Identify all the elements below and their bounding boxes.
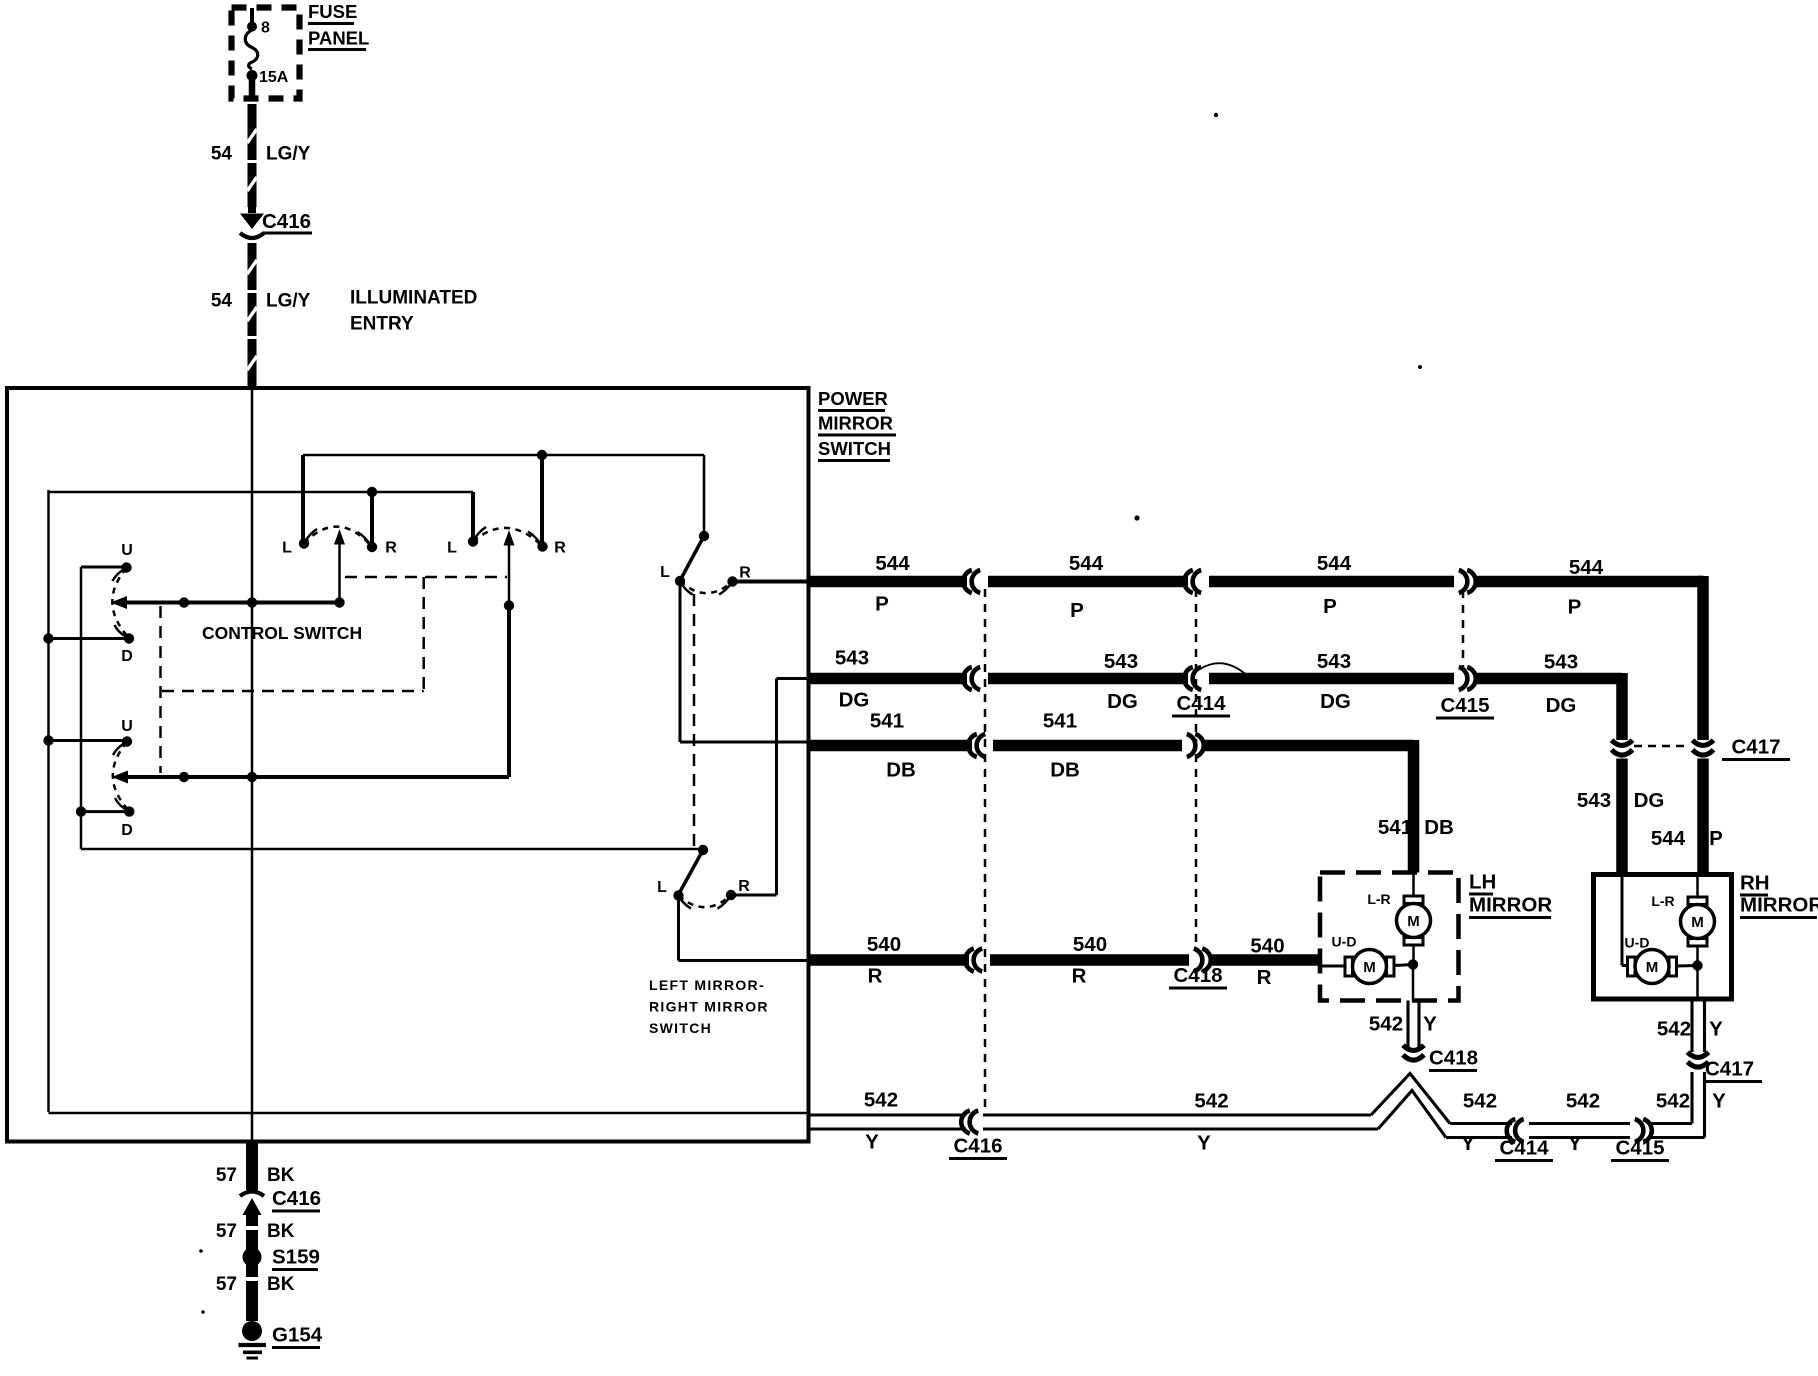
svg-text:U-D: U-D bbox=[1625, 935, 1650, 951]
svg-text:Y: Y bbox=[1461, 1132, 1475, 1155]
svg-text:DB: DB bbox=[1050, 759, 1080, 782]
svg-text:C417: C417 bbox=[1705, 1058, 1754, 1081]
svg-text:542: 542 bbox=[1369, 1013, 1403, 1036]
svg-text:DG: DG bbox=[1546, 694, 1577, 717]
svg-text:DG: DG bbox=[1320, 690, 1351, 713]
svg-text:CONTROL SWITCH: CONTROL SWITCH bbox=[202, 623, 362, 643]
svg-text:ILLUMINATED: ILLUMINATED bbox=[350, 288, 477, 309]
svg-text:U: U bbox=[121, 542, 133, 559]
svg-text:Y: Y bbox=[1712, 1090, 1726, 1113]
svg-text:M: M bbox=[1407, 913, 1420, 930]
svg-text:Y: Y bbox=[1568, 1132, 1582, 1155]
svg-text:U: U bbox=[121, 718, 133, 735]
svg-text:RIGHT MIRROR: RIGHT MIRROR bbox=[649, 999, 769, 1015]
svg-text:RH: RH bbox=[1740, 872, 1770, 895]
svg-text:U-D: U-D bbox=[1332, 934, 1357, 950]
svg-text:541: 541 bbox=[870, 710, 904, 733]
svg-text:542: 542 bbox=[1656, 1090, 1690, 1113]
svg-text:Y: Y bbox=[1423, 1013, 1437, 1036]
svg-text:R: R bbox=[868, 965, 883, 988]
svg-text:541: 541 bbox=[1043, 710, 1077, 733]
svg-text:P: P bbox=[1709, 827, 1723, 850]
svg-text:L: L bbox=[660, 564, 670, 581]
svg-text:PANEL: PANEL bbox=[308, 28, 369, 49]
svg-text:MIRROR: MIRROR bbox=[1469, 894, 1552, 917]
svg-text:L: L bbox=[447, 540, 457, 557]
svg-text:L-R: L-R bbox=[1367, 891, 1390, 907]
svg-text:57: 57 bbox=[216, 1165, 237, 1186]
svg-text:C416: C416 bbox=[262, 210, 311, 233]
svg-text:M: M bbox=[1646, 959, 1659, 976]
svg-text:542: 542 bbox=[1566, 1090, 1600, 1113]
svg-text:C414: C414 bbox=[1499, 1137, 1549, 1160]
svg-text:ENTRY: ENTRY bbox=[350, 314, 414, 335]
svg-text:15A: 15A bbox=[259, 69, 289, 86]
svg-text:BK: BK bbox=[267, 1221, 295, 1242]
svg-text:L-R: L-R bbox=[1651, 893, 1674, 909]
svg-text:543: 543 bbox=[1104, 650, 1138, 673]
svg-text:542: 542 bbox=[1463, 1090, 1497, 1113]
svg-text:R: R bbox=[554, 540, 566, 557]
svg-text:R: R bbox=[1257, 966, 1272, 989]
svg-text:R: R bbox=[739, 565, 751, 582]
svg-text:542: 542 bbox=[864, 1089, 898, 1112]
svg-text:542: 542 bbox=[1657, 1018, 1691, 1041]
svg-text:LG/Y: LG/Y bbox=[266, 144, 311, 165]
svg-text:544: 544 bbox=[1317, 552, 1352, 575]
svg-text:R: R bbox=[1072, 965, 1087, 988]
svg-text:R: R bbox=[385, 540, 397, 557]
svg-text:DG: DG bbox=[1107, 690, 1138, 713]
svg-text:543: 543 bbox=[835, 647, 869, 670]
svg-text:C416: C416 bbox=[272, 1187, 321, 1210]
svg-text:DB: DB bbox=[886, 759, 916, 782]
svg-text:LG/Y: LG/Y bbox=[266, 291, 311, 312]
svg-text:LH: LH bbox=[1469, 871, 1496, 894]
svg-text:FUSE: FUSE bbox=[308, 1, 357, 22]
svg-text:Y: Y bbox=[1197, 1132, 1211, 1155]
svg-text:543: 543 bbox=[1577, 789, 1611, 812]
svg-text:C417: C417 bbox=[1731, 736, 1780, 759]
svg-text:C414: C414 bbox=[1176, 692, 1226, 715]
svg-text:L: L bbox=[657, 879, 667, 896]
svg-text:Y: Y bbox=[865, 1131, 879, 1154]
svg-text:544: 544 bbox=[1069, 552, 1104, 575]
svg-text:57: 57 bbox=[216, 1221, 237, 1242]
svg-text:M: M bbox=[1691, 914, 1704, 931]
svg-text:D: D bbox=[121, 822, 133, 839]
svg-text:8: 8 bbox=[261, 20, 270, 37]
svg-text:G154: G154 bbox=[272, 1324, 323, 1347]
svg-text:C415: C415 bbox=[1440, 694, 1489, 717]
svg-text:544: 544 bbox=[875, 552, 910, 575]
svg-text:BK: BK bbox=[267, 1165, 295, 1186]
svg-text:L: L bbox=[282, 540, 292, 557]
svg-text:P: P bbox=[1070, 599, 1084, 622]
svg-text:DG: DG bbox=[1634, 789, 1665, 812]
svg-text:544: 544 bbox=[1651, 827, 1686, 850]
svg-text:543: 543 bbox=[1317, 650, 1351, 673]
svg-text:P: P bbox=[875, 593, 889, 616]
svg-text:542: 542 bbox=[1194, 1090, 1228, 1113]
svg-text:S159: S159 bbox=[272, 1246, 320, 1269]
svg-text:C418: C418 bbox=[1173, 964, 1222, 987]
svg-text:POWER: POWER bbox=[818, 388, 888, 409]
svg-text:M: M bbox=[1363, 959, 1376, 976]
svg-text:540: 540 bbox=[1073, 933, 1107, 956]
svg-text:SWITCH: SWITCH bbox=[818, 438, 891, 459]
svg-text:54: 54 bbox=[211, 291, 233, 312]
svg-text:P: P bbox=[1323, 595, 1337, 618]
svg-text:MIRROR: MIRROR bbox=[818, 413, 893, 434]
svg-text:C418: C418 bbox=[1429, 1047, 1478, 1070]
svg-text:54: 54 bbox=[211, 144, 233, 165]
svg-text:SWITCH: SWITCH bbox=[649, 1020, 712, 1036]
svg-text:544: 544 bbox=[1569, 556, 1604, 579]
svg-text:DG: DG bbox=[839, 689, 870, 712]
svg-text:P: P bbox=[1568, 596, 1582, 619]
svg-text:541: 541 bbox=[1378, 816, 1412, 839]
svg-text:DB: DB bbox=[1424, 816, 1454, 839]
svg-text:57: 57 bbox=[216, 1274, 237, 1295]
svg-text:Y: Y bbox=[1709, 1018, 1723, 1041]
svg-text:R: R bbox=[738, 878, 750, 895]
svg-text:BK: BK bbox=[267, 1274, 295, 1295]
svg-text:543: 543 bbox=[1544, 651, 1578, 674]
svg-text:540: 540 bbox=[1250, 935, 1284, 958]
svg-text:LEFT MIRROR-: LEFT MIRROR- bbox=[649, 977, 765, 993]
svg-text:D: D bbox=[121, 648, 133, 665]
svg-text:C415: C415 bbox=[1615, 1137, 1664, 1160]
svg-text:540: 540 bbox=[867, 933, 901, 956]
svg-text:MIRROR: MIRROR bbox=[1740, 894, 1818, 917]
svg-text:C416: C416 bbox=[953, 1135, 1002, 1158]
